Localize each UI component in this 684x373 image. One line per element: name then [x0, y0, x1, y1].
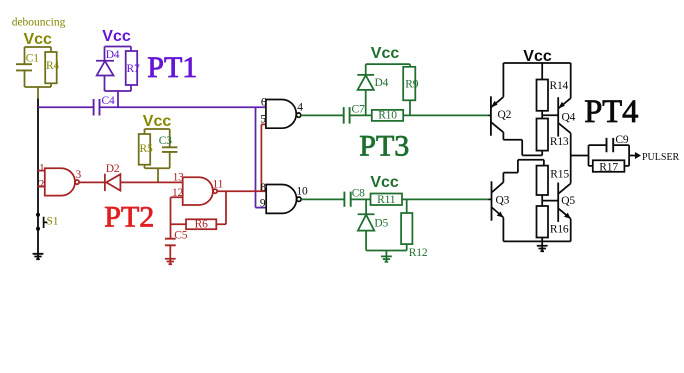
svg-text:D4: D4	[106, 49, 120, 61]
svg-text:C4: C4	[102, 95, 115, 107]
svg-text:PULSER: PULSER	[642, 152, 680, 163]
svg-text:R9: R9	[405, 79, 418, 91]
svg-text:Q2: Q2	[498, 109, 512, 121]
svg-text:R14: R14	[550, 80, 569, 92]
svg-text:D2: D2	[106, 163, 120, 175]
svg-text:PT4: PT4	[584, 94, 638, 130]
svg-text:6: 6	[261, 97, 267, 109]
svg-text:D5: D5	[374, 217, 388, 229]
svg-text:Vcc: Vcc	[371, 45, 400, 62]
svg-text:R12: R12	[409, 247, 428, 259]
svg-text:12: 12	[172, 187, 184, 199]
svg-text:PT3: PT3	[359, 130, 409, 163]
svg-text:C7: C7	[352, 104, 365, 116]
svg-text:9: 9	[260, 197, 266, 209]
svg-text:2: 2	[39, 179, 45, 191]
svg-text:PT1: PT1	[147, 51, 197, 84]
svg-text:Vcc: Vcc	[523, 48, 552, 65]
svg-text:11: 11	[213, 178, 224, 190]
svg-text:10: 10	[296, 185, 308, 197]
svg-text:R5: R5	[140, 143, 153, 155]
svg-text:C5: C5	[174, 229, 187, 241]
svg-text:R6: R6	[195, 219, 208, 231]
svg-text:debouncing: debouncing	[12, 17, 66, 29]
svg-text:R4: R4	[46, 60, 59, 72]
svg-text:Q4: Q4	[562, 112, 576, 124]
svg-text:C8: C8	[352, 188, 365, 200]
svg-text:Vcc: Vcc	[370, 174, 399, 191]
svg-text:PT2: PT2	[104, 200, 154, 233]
svg-text:R10: R10	[378, 109, 397, 121]
svg-text:Vcc: Vcc	[23, 31, 52, 48]
svg-text:13: 13	[173, 172, 185, 184]
svg-text:5: 5	[260, 114, 266, 126]
svg-text:R7: R7	[127, 63, 140, 75]
svg-text:Vcc: Vcc	[102, 28, 131, 45]
svg-text:3: 3	[76, 169, 82, 181]
svg-text:8: 8	[260, 182, 266, 194]
svg-text:Q3: Q3	[496, 194, 510, 206]
svg-text:1: 1	[39, 162, 45, 174]
svg-text:S1: S1	[47, 216, 59, 228]
svg-text:4: 4	[297, 102, 303, 114]
svg-text:R17: R17	[599, 161, 618, 173]
svg-text:C1: C1	[26, 53, 39, 65]
svg-text:R16: R16	[550, 223, 569, 235]
svg-text:D4: D4	[375, 77, 389, 89]
svg-text:C3: C3	[159, 135, 172, 147]
svg-text:R11: R11	[377, 194, 396, 206]
svg-text:R13: R13	[550, 136, 569, 148]
svg-text:R15: R15	[550, 169, 569, 181]
svg-text:C9: C9	[615, 134, 628, 146]
svg-text:Vcc: Vcc	[143, 113, 172, 130]
svg-text:Q5: Q5	[561, 195, 575, 207]
